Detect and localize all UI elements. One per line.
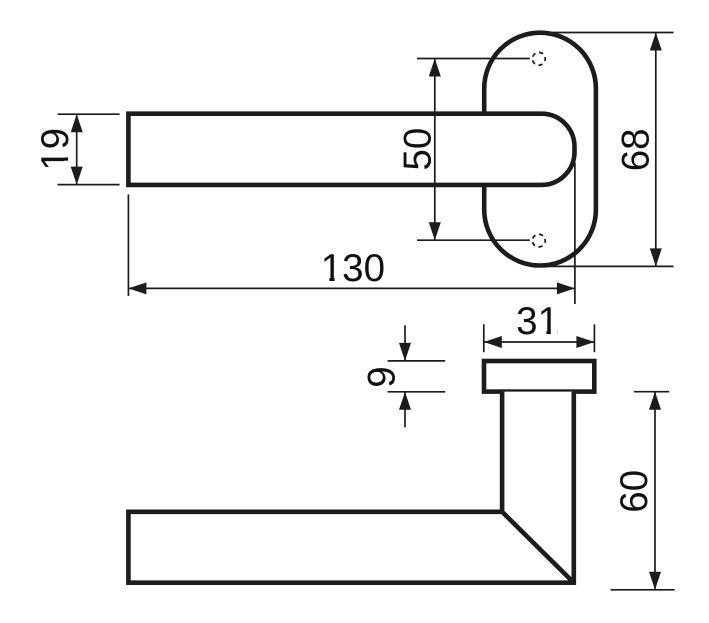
dim 31: extension line left bbox=[483, 324, 485, 352]
dim 60: extension line top bbox=[634, 391, 669, 393]
dim 50: arrow up bbox=[429, 59, 441, 77]
rosette (top view, oval plate) bbox=[484, 33, 596, 266]
dim 130: extension line right bbox=[574, 163, 576, 304]
rosette plate (side view) bbox=[484, 361, 594, 392]
dim 60: dimension line bbox=[654, 392, 656, 590]
dim 31: arrow right bbox=[576, 336, 594, 348]
dim 60: arrow up bbox=[649, 392, 661, 410]
dim 68: extension line top bbox=[548, 32, 674, 34]
dim 130: arrow left bbox=[128, 282, 146, 294]
handle profile bend line (diagonal) bbox=[502, 512, 574, 583]
dim 31: extension line right bbox=[593, 324, 595, 352]
dim 50: extension line top bbox=[417, 58, 530, 60]
dim 9: arrow up (below, pointing to bottom line) bbox=[399, 392, 411, 410]
svg-text:31: 31 bbox=[516, 300, 559, 343]
svg-text:19: 19 bbox=[34, 128, 77, 171]
dim 50: dimension line bbox=[434, 59, 436, 241]
svg-text:68: 68 bbox=[614, 128, 657, 171]
dim 31: arrow left bbox=[484, 336, 502, 348]
dim 60: arrow down bbox=[649, 572, 661, 590]
dim 19: arrow down bbox=[71, 167, 83, 185]
dim 9: leader line above bbox=[404, 325, 406, 361]
dim 130: arrow right bbox=[557, 282, 575, 294]
dim 9: leader line below bbox=[404, 392, 406, 427]
dim 130: dimension line bbox=[128, 287, 575, 289]
handle lever (top view) bbox=[128, 114, 574, 185]
dim 19: arrow up bbox=[71, 114, 83, 132]
svg-text:60: 60 bbox=[613, 470, 656, 513]
dim 9: extension line top bbox=[388, 360, 446, 362]
screw hole top (dashed) bbox=[532, 52, 545, 65]
dim 68: extension line bottom bbox=[545, 265, 674, 267]
svg-text:50: 50 bbox=[397, 128, 440, 171]
dim 50: extension line bottom bbox=[417, 239, 530, 241]
dim 19: extension line bottom bbox=[58, 184, 120, 186]
dim 60: extension line bottom bbox=[611, 589, 675, 591]
dim 68: dimension line bbox=[655, 33, 657, 267]
dim 9: arrow down (above, pointing to top line) bbox=[399, 343, 411, 361]
screw hole bottom (dashed) bbox=[532, 234, 545, 247]
dim 50: arrow down bbox=[429, 222, 441, 240]
dim 9: extension line bottom bbox=[388, 391, 446, 393]
svg-text:130: 130 bbox=[321, 247, 385, 290]
handle profile (side view) bbox=[128, 392, 573, 583]
svg-text:9: 9 bbox=[360, 366, 403, 387]
dim 68: arrow down bbox=[650, 248, 662, 266]
dim 19: dimension line bbox=[76, 114, 78, 184]
dim 19: extension line top bbox=[58, 113, 120, 115]
dim 68: arrow up bbox=[650, 33, 662, 51]
dim 130: extension line left bbox=[127, 194, 129, 296]
dim 31: dimension line bbox=[484, 341, 595, 343]
